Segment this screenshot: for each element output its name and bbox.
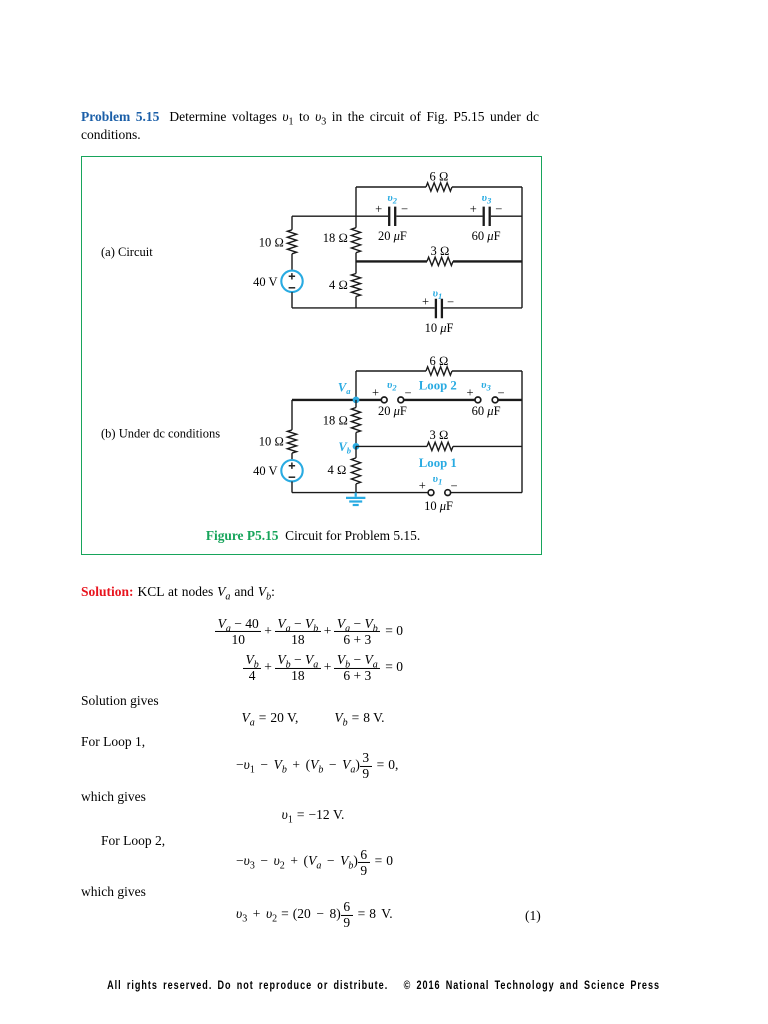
wire: circuit (a) mid branch lower stub: [355, 297, 357, 308]
ground (circuit b): [346, 493, 365, 505]
wire: circuit (a) cap row, 60uF to right: [491, 215, 522, 217]
resistor 6 ohm (circuit b): [426, 367, 452, 375]
svg-text:4 Ω: 4 Ω: [329, 278, 348, 292]
svg-text:+: +: [372, 386, 379, 400]
open-circuit terminals of 60 uF (circuit b): [475, 397, 498, 403]
wire: circuit (b) right vertical: [521, 371, 523, 493]
svg-text:υ1: υ1: [433, 287, 443, 301]
svg-text:υ2: υ2: [387, 379, 397, 393]
svg-text:+: +: [466, 386, 473, 400]
wire: circuit (b) 3-ohm row left segment: [356, 445, 427, 447]
wire: circuit (b) mid branch between 18 ohm and Vb: [355, 433, 357, 447]
node Va (circuit b): [353, 397, 360, 404]
KCL equation at node Va: [215, 617, 406, 647]
wire: circuit (b) top row left segment: [356, 370, 426, 372]
wire: circuit (b) main row right segment (bold): [498, 399, 522, 401]
problem statement heading: [81, 108, 539, 145]
wire: circuit (a) bottom row right of 10uF: [443, 307, 522, 309]
wire: circuit (b) main row from left column to 20uF open terminal (bold): [292, 399, 381, 401]
wire: circuit (b) bottom row from left column to 10uF open terminal: [292, 492, 428, 494]
resistor 18 ohm (circuit a): [351, 228, 360, 253]
open-circuit terminals of 10 uF (circuit b): [428, 490, 451, 496]
wire: circuit (a) left branch top stub: [291, 216, 293, 230]
svg-text:−: −: [450, 479, 457, 493]
open-circuit terminals of 20 uF (circuit b): [381, 397, 403, 403]
wire: circuit (b) top row right segment: [452, 370, 522, 372]
svg-text:υ3: υ3: [481, 379, 491, 393]
figure frame (green box): [81, 156, 542, 555]
svg-text:+: +: [419, 479, 426, 493]
svg-text:4 Ω: 4 Ω: [328, 463, 347, 477]
resistor 10 ohm (circuit b): [287, 430, 296, 453]
wire: circuit (a) top row left segment: [356, 186, 426, 188]
node voltage results: [81, 709, 545, 726]
svg-text:+: +: [470, 202, 477, 216]
final result equation: [236, 900, 393, 930]
svg-text:−: −: [404, 386, 411, 400]
svg-text:υ3: υ3: [482, 192, 492, 206]
wire: circuit (a) cap row, left node to 20uF: [292, 215, 388, 217]
wire: circuit (b) 3-ohm row right segment: [453, 445, 522, 447]
capacitor C2 20 uF (circuit a): [389, 207, 395, 226]
svg-text:−: −: [497, 386, 504, 400]
svg-text:40 V: 40 V: [253, 464, 277, 478]
wire: circuit (a) top row right segment: [452, 186, 522, 188]
wire: circuit (a) cap row, 20uF to 60uF: [396, 215, 482, 217]
svg-text:+: +: [422, 295, 429, 309]
wire: circuit (b) left column mid stub: [291, 453, 293, 460]
svg-text:Loop 2: Loop 2: [419, 378, 457, 392]
svg-text:60 μF: 60 μF: [472, 404, 501, 418]
resistor 4 ohm (circuit a): [351, 274, 360, 297]
v1 result: [81, 806, 545, 823]
KCL equation at node Vb: [243, 653, 406, 683]
voltage source 40 V (circuit b): [281, 460, 302, 481]
equation number (1): [525, 907, 541, 924]
capacitor C1 10 uF (circuit a): [436, 299, 442, 319]
svg-text:20 μF: 20 μF: [378, 404, 407, 418]
solution heading: [81, 583, 275, 600]
wire: circuit (a) mid branch upper stub: [355, 216, 357, 228]
svg-text:40 V: 40 V: [253, 275, 277, 289]
node Vb (circuit b): [353, 443, 360, 450]
resistor 3 ohm (circuit a): [427, 257, 453, 265]
Loop 1 KVL equation: [236, 751, 398, 781]
svg-text:18 Ω: 18 Ω: [323, 231, 348, 245]
svg-text:20 μF: 20 μF: [378, 229, 407, 243]
svg-text:υ1: υ1: [433, 473, 443, 487]
figure caption: [81, 527, 545, 544]
svg-text:10 Ω: 10 Ω: [259, 434, 284, 448]
resistor 3 ohm (circuit b): [427, 442, 453, 450]
capacitor C3 60 uF (circuit a): [484, 207, 490, 226]
svg-text:+: +: [375, 202, 382, 216]
svg-text:Va: Va: [338, 380, 351, 396]
svg-text:(b) Under dc conditions: (b) Under dc conditions: [101, 426, 220, 440]
svg-text:10 Ω: 10 Ω: [259, 235, 284, 249]
circuit figure: [0, 0, 768, 600]
wire: circuit (b) mid branch upper stub: [355, 400, 357, 408]
resistor 6 ohm (circuit a): [426, 183, 452, 191]
wire: circuit (b) left column bottom stub: [291, 482, 293, 493]
wire: circuit (b) mid branch between Vb and 4 ohm: [355, 446, 357, 458]
svg-text:60 μF: 60 μF: [472, 229, 501, 243]
wire: circuit (a) bottom row left of 10uF: [292, 307, 435, 309]
svg-text:10 μF: 10 μF: [425, 321, 454, 335]
wire: circuit (b) bottom row right of terminals: [451, 492, 522, 494]
wire: circuit (a) mid branch between 18 ohm and 4 ohm: [355, 253, 357, 274]
wire: circuit (b) main row between open terminals (bold): [404, 399, 475, 401]
wire: circuit (b) left column top stub: [291, 400, 293, 430]
svg-text:−: −: [495, 202, 502, 216]
wire: circuit (a) left branch mid stub: [291, 254, 293, 271]
svg-text:(a) Circuit: (a) Circuit: [101, 245, 153, 259]
svg-text:3 Ω: 3 Ω: [430, 428, 449, 442]
svg-text:3 Ω: 3 Ω: [431, 244, 450, 258]
svg-text:υ2: υ2: [387, 192, 397, 206]
svg-text:6 Ω: 6 Ω: [430, 354, 449, 368]
wire: circuit (a) left branch bottom stub: [291, 292, 293, 308]
svg-text:−: −: [401, 202, 408, 216]
svg-text:Loop 1: Loop 1: [419, 456, 457, 470]
resistor 4 ohm (circuit b): [351, 458, 360, 484]
footer copyright: [0, 978, 768, 992]
svg-text:6 Ω: 6 Ω: [430, 169, 449, 183]
voltage source 40 V (circuit a): [281, 271, 302, 292]
wire: circuit (b) mid column top vertical: [355, 371, 357, 400]
resistor 10 ohm (circuit a): [287, 230, 296, 254]
Loop 2 KVL equation: [236, 848, 393, 878]
wire: circuit (a) 3-ohm row right segment (bold): [453, 260, 522, 262]
wire: circuit (b) mid branch lower stub: [355, 484, 357, 493]
resistor 18 ohm (circuit b): [351, 408, 360, 433]
wire: circuit (a) 3-ohm row left segment (bold): [356, 260, 427, 262]
svg-text:10 μF: 10 μF: [424, 499, 453, 513]
svg-text:Vb: Vb: [338, 440, 351, 456]
wire: circuit (a) right vertical: [521, 187, 523, 308]
wire: circuit (a) top-left vertical (mid column, top row to cap row): [355, 187, 357, 216]
svg-text:−: −: [447, 295, 454, 309]
svg-text:18 Ω: 18 Ω: [323, 414, 348, 428]
